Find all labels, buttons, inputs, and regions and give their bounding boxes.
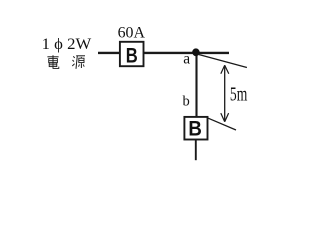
- svg-text:B: B: [126, 43, 138, 67]
- svg-text:60A: 60A: [118, 25, 146, 42]
- svg-text:5m: 5m: [230, 83, 247, 105]
- svg-text:a: a: [183, 50, 190, 67]
- svg-text:B: B: [188, 117, 202, 140]
- svg-text:1 ϕ 2W: 1 ϕ 2W: [42, 36, 92, 53]
- svg-text:b: b: [183, 94, 190, 110]
